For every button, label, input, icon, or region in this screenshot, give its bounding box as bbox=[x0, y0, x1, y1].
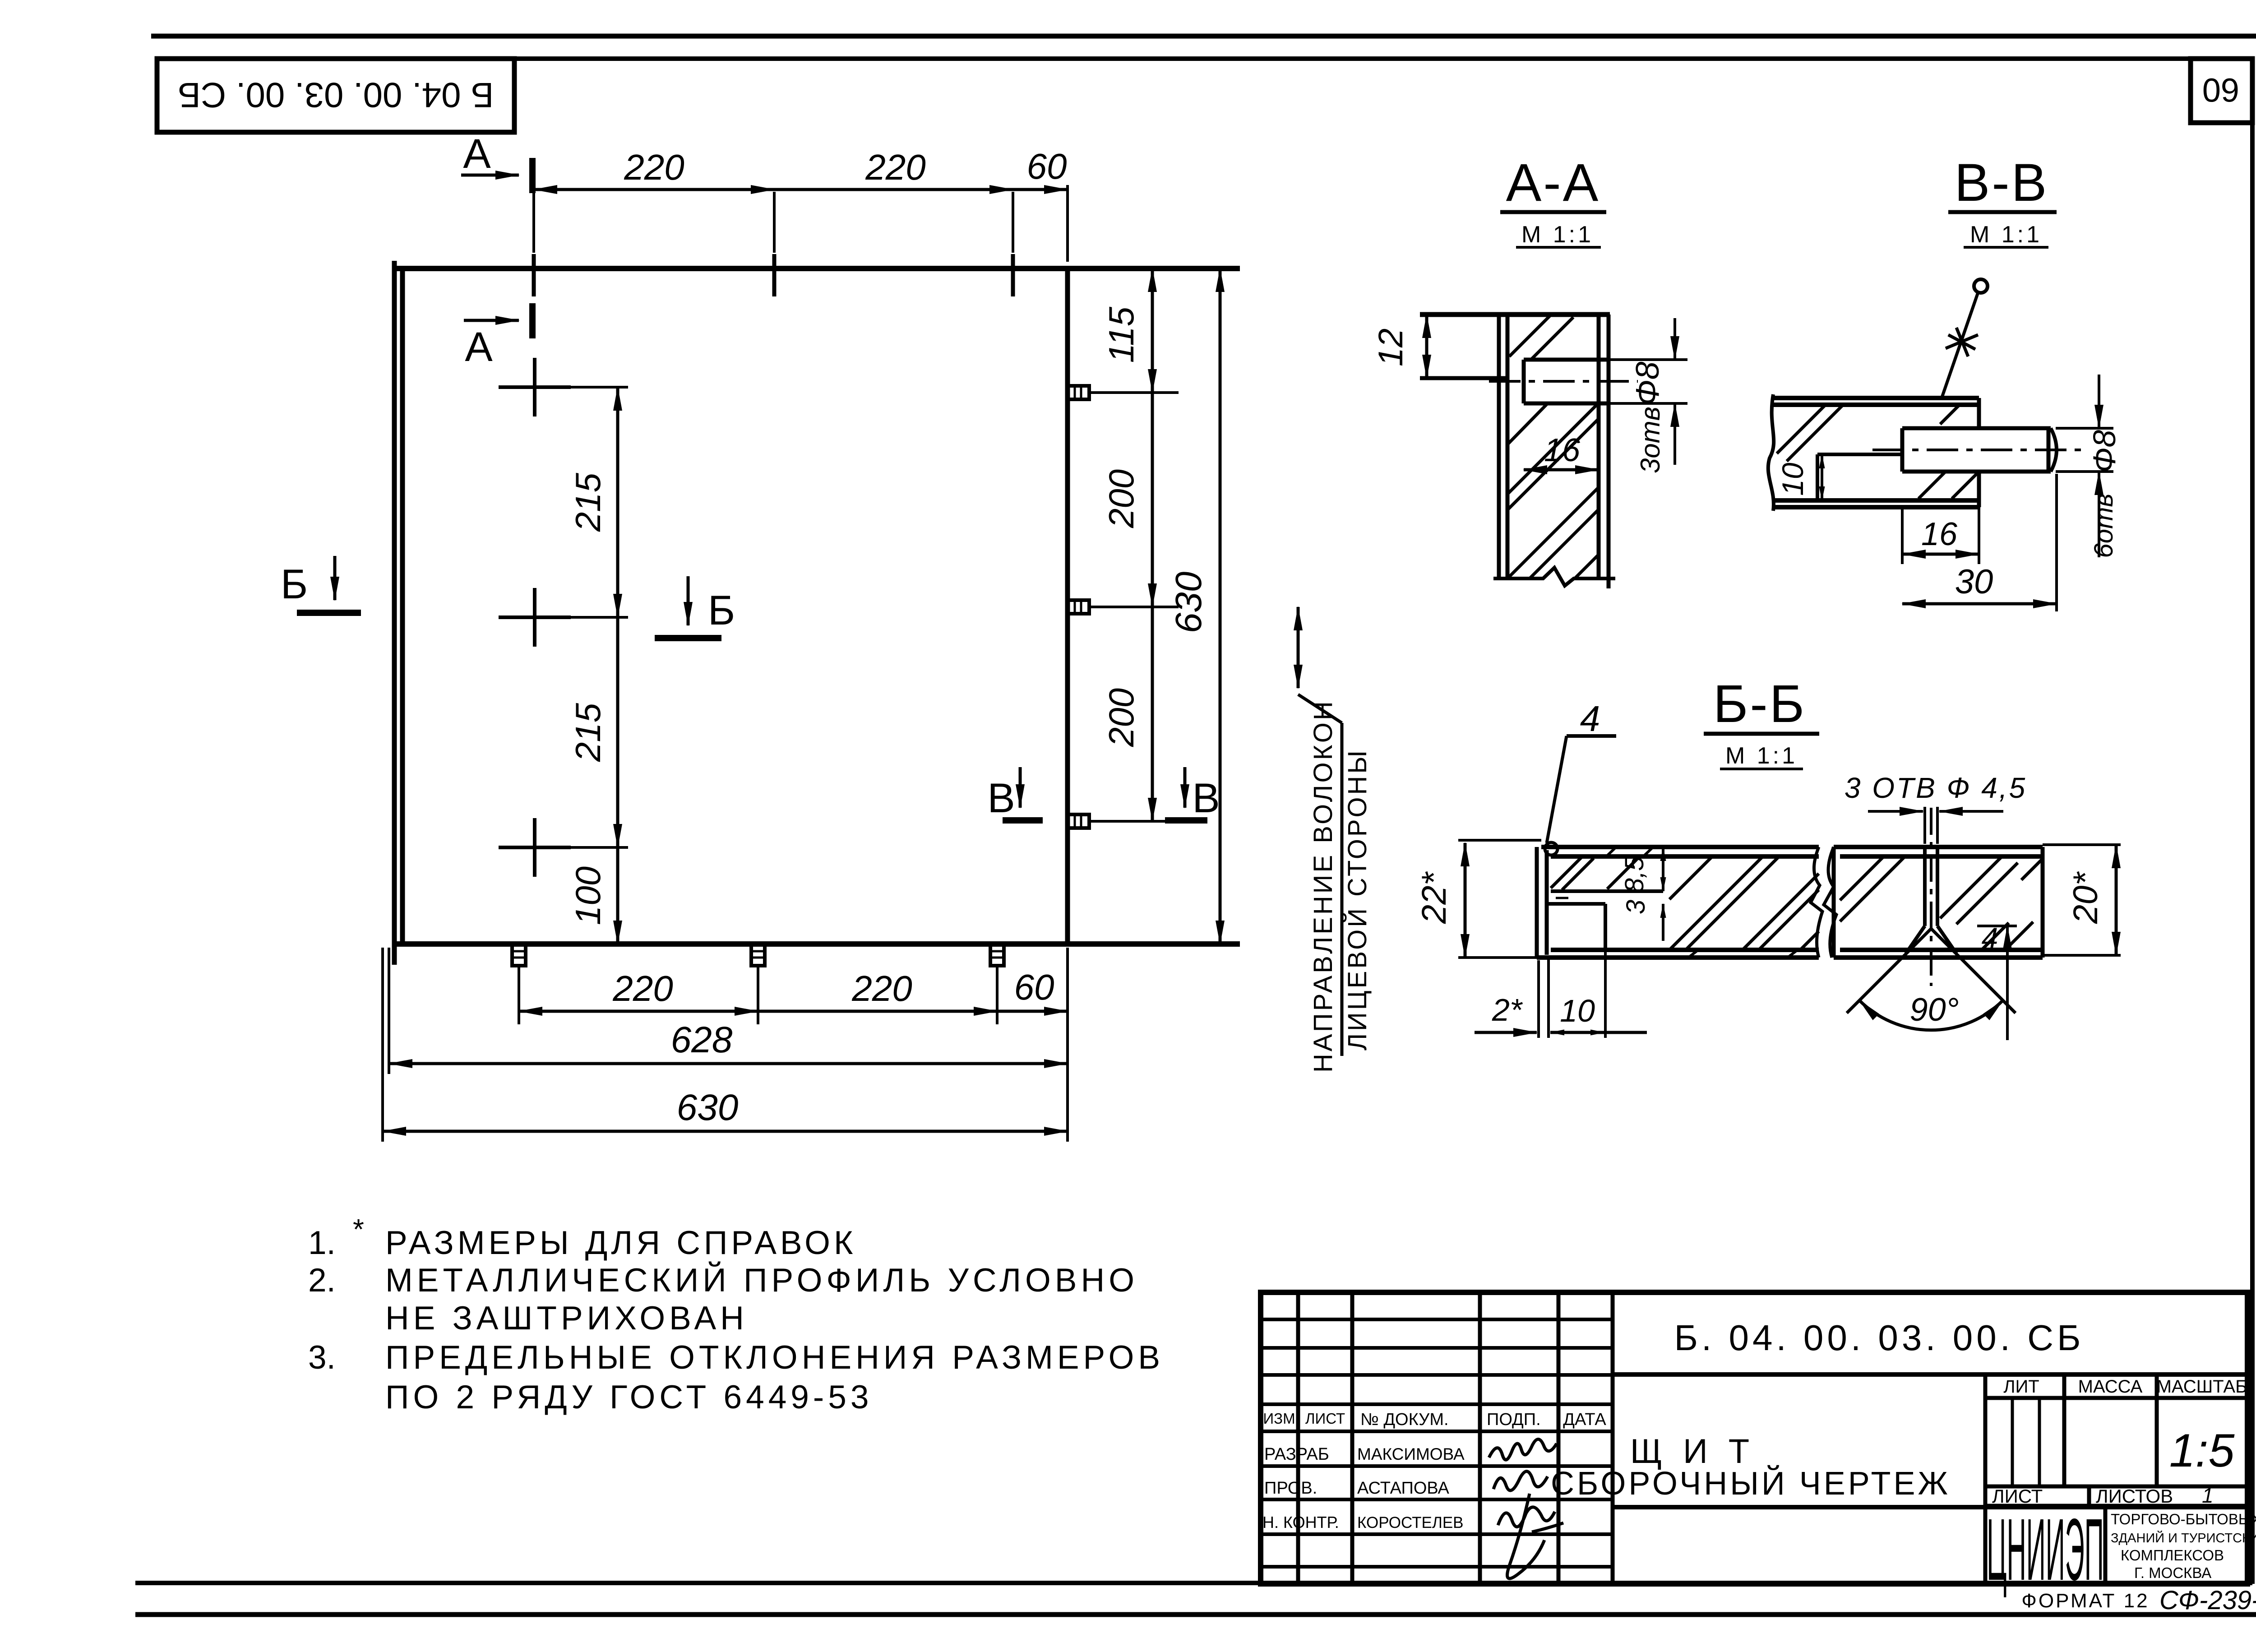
svg-text:200: 200 bbox=[1101, 469, 1141, 528]
A-A ledge line bbox=[1420, 376, 1507, 380]
dim line 630 bottom bbox=[383, 1130, 1068, 1133]
B-B dim tail line bbox=[1606, 1031, 1647, 1034]
B-B upper block hatch bbox=[1551, 857, 1637, 890]
section mark A upper arrow bbox=[461, 174, 519, 177]
dim line 628 bbox=[389, 1062, 1068, 1065]
B-B 90 deg V lines bbox=[1847, 929, 2016, 1013]
right dim line 200 bbox=[1151, 393, 1154, 607]
pin right 1 bbox=[1068, 386, 1179, 399]
svg-text:ЗДАНИЙ И ТУРИСТСКИХ: ЗДАНИЙ И ТУРИСТСКИХ bbox=[2111, 1530, 2256, 1546]
svg-text:А: А bbox=[465, 324, 493, 370]
B-B hole upper extensions bbox=[1925, 807, 1937, 844]
B-B countersink cone bbox=[1906, 926, 1956, 953]
right dim line 200b bbox=[1151, 607, 1154, 821]
V-V dowel axis bbox=[1872, 449, 2085, 451]
svg-text:Б: Б bbox=[281, 561, 308, 607]
B-B break squiggle right bbox=[1824, 847, 1836, 958]
section mark B left arrow bbox=[333, 556, 337, 600]
svg-text:КОМПЛЕКСОВ: КОМПЛЕКСОВ bbox=[2121, 1547, 2224, 1564]
bottom dim right extension bbox=[1066, 948, 1069, 1142]
B-B dims 2 and 10 extensions bbox=[1539, 952, 1605, 1038]
A-A bottom break line bbox=[1493, 568, 1615, 586]
svg-text:4: 4 bbox=[1982, 921, 1998, 955]
bottom 628 extension lines bbox=[383, 948, 389, 1142]
A-A dowel hole bbox=[1524, 360, 1609, 403]
V-V dim 30 bbox=[1902, 602, 2057, 606]
svg-text:215: 215 bbox=[568, 472, 608, 532]
pin bottom 1 bbox=[512, 944, 526, 1024]
svg-text:Ф8: Ф8 bbox=[2087, 430, 2122, 473]
B-B 3 otv dim arrows bbox=[1868, 810, 1923, 813]
svg-text:1.: 1. bbox=[308, 1225, 336, 1261]
panel left edge double line bbox=[394, 261, 402, 965]
svg-text:ТОРГОВО-БЫТОВЫХ: ТОРГОВО-БЫТОВЫХ bbox=[2111, 1511, 2256, 1527]
svg-text:Б-Б: Б-Б bbox=[1713, 674, 1806, 734]
svg-text:1:5: 1:5 bbox=[2169, 1425, 2235, 1477]
svg-text:М 1:1: М 1:1 bbox=[1725, 743, 1798, 769]
svg-text:90°: 90° bbox=[1910, 992, 1959, 1028]
svg-text:ПОДП.: ПОДП. bbox=[1487, 1410, 1541, 1429]
svg-text:3: 3 bbox=[1621, 900, 1650, 914]
svg-text:*: * bbox=[353, 1213, 364, 1245]
svg-text:ЦНИИЭП: ЦНИИЭП bbox=[1987, 1500, 2104, 1599]
svg-text:АСТАПОВА: АСТАПОВА bbox=[1357, 1479, 1450, 1498]
B-B dim 10 line bbox=[1550, 1031, 1604, 1034]
svg-text:Б. 04. 00. 03. 00. СБ: Б. 04. 00. 03. 00. СБ bbox=[1674, 1318, 2085, 1358]
svg-text:Ф8: Ф8 bbox=[1630, 361, 1666, 405]
svg-text:РАЗМЕРЫ ДЛЯ СПРАВОК: РАЗМЕРЫ ДЛЯ СПРАВОК bbox=[385, 1225, 856, 1261]
interior cross 3 bbox=[499, 818, 571, 877]
B-B screw hole bbox=[1925, 847, 1937, 926]
svg-text:100: 100 bbox=[568, 866, 608, 925]
V-V hatching bbox=[1777, 404, 1978, 499]
top dim extension lines bbox=[534, 185, 1068, 262]
svg-text:16: 16 bbox=[1544, 432, 1581, 468]
top-left stamp box bbox=[157, 59, 514, 132]
lit cell subdividers bbox=[2012, 1398, 2039, 1486]
B-B dim 20 extensions bbox=[2043, 845, 2121, 955]
svg-text:В: В bbox=[987, 775, 1015, 821]
top edge cross marks bbox=[534, 254, 1013, 296]
svg-text:МЕТАЛЛИЧЕСКИЙ ПРОФИЛЬ УСЛОВНО: МЕТАЛЛИЧЕСКИЙ ПРОФИЛЬ УСЛОВНО bbox=[385, 1262, 1138, 1299]
left dim line 215b bbox=[616, 617, 619, 847]
V-V leader star bbox=[1946, 328, 1978, 356]
svg-text:ДАТА: ДАТА bbox=[1563, 1410, 1606, 1429]
B-B left piece bottom skin bbox=[1537, 950, 1819, 958]
A-A dim 16 bbox=[1524, 468, 1599, 472]
B-B dim 8.5 arrows bbox=[1662, 847, 1664, 891]
section B-B scale underline bbox=[1720, 768, 1803, 770]
V-V dim F8 arrows bbox=[2098, 375, 2100, 428]
svg-text:В: В bbox=[1192, 775, 1220, 821]
svg-text:60: 60 bbox=[2202, 71, 2239, 109]
svg-text:ПО 2 РЯДУ ГОСТ 6449-53: ПО 2 РЯДУ ГОСТ 6449-53 bbox=[385, 1379, 873, 1416]
V-V dowel end cap bbox=[2051, 428, 2057, 472]
B-B big block hatch bbox=[1669, 856, 1819, 950]
A-A hole extension ticks bbox=[1609, 360, 1687, 403]
section mark V right bar bbox=[1165, 817, 1207, 824]
svg-text:60: 60 bbox=[1014, 967, 1054, 1007]
V-V member bottom skin bbox=[1773, 500, 1979, 507]
svg-text:А-А: А-А bbox=[1506, 153, 1600, 213]
designation cell bottom line bbox=[1613, 1372, 2247, 1377]
B-B dim 22 bbox=[1464, 843, 1467, 958]
svg-text:215: 215 bbox=[568, 703, 608, 762]
section mark V left arrow bbox=[1019, 767, 1022, 808]
V-V member right end edges bbox=[1977, 398, 1981, 507]
V-V member top skin bbox=[1773, 398, 1979, 405]
left dim extension lines bbox=[571, 387, 628, 847]
svg-text:СФ-239-05: СФ-239-05 bbox=[2159, 1586, 2256, 1615]
A-A member edges bbox=[1499, 315, 1609, 588]
logo cell divider bbox=[2103, 1506, 2108, 1584]
svg-text:16: 16 bbox=[1921, 516, 1958, 552]
svg-text:630: 630 bbox=[677, 1087, 739, 1128]
fiber note connector bbox=[1298, 694, 1342, 723]
svg-text:4: 4 bbox=[1580, 699, 1600, 739]
right dim line 115 bbox=[1151, 268, 1154, 393]
section mark V right arrow bbox=[1183, 767, 1187, 808]
right dim line 630 bbox=[1219, 268, 1222, 944]
pin bottom 3 bbox=[990, 944, 1004, 1024]
svg-text:30: 30 bbox=[1955, 563, 1993, 601]
svg-text:В-В: В-В bbox=[1955, 153, 2049, 213]
svg-text:ЛИСТ: ЛИСТ bbox=[1305, 1410, 1345, 1427]
svg-text:3.: 3. bbox=[308, 1339, 336, 1376]
section A-A title underline bbox=[1500, 210, 1606, 214]
interior cross 1 bbox=[499, 358, 571, 416]
svg-text:М 1:1: М 1:1 bbox=[1970, 222, 2042, 248]
left dim line 215 bbox=[616, 387, 619, 617]
V-V dim F8 ticks bbox=[2056, 428, 2113, 472]
B-B right piece bottom skin bbox=[1834, 950, 2043, 958]
panel bottom edge bbox=[394, 941, 1240, 947]
svg-text:1: 1 bbox=[2202, 1484, 2214, 1507]
svg-text:Б: Б bbox=[708, 588, 735, 634]
top dim line 60 bbox=[1013, 188, 1068, 191]
svg-text:ПРЕДЕЛЬНЫЕ ОТКЛОНЕНИЯ РАЗМЕРОВ: ПРЕДЕЛЬНЫЕ ОТКЛОНЕНИЯ РАЗМЕРОВ bbox=[385, 1339, 1164, 1376]
svg-text:3отв: 3отв bbox=[1635, 407, 1665, 473]
sheet inner border bottom bbox=[135, 1581, 2252, 1585]
B-B dim 4 tick bbox=[1977, 925, 2017, 927]
svg-text:М 1:1: М 1:1 bbox=[1521, 222, 1594, 248]
svg-text:3 ОТВ Ф 4,5: 3 ОТВ Ф 4,5 bbox=[1845, 772, 2027, 804]
A-A hatching bbox=[1507, 315, 1599, 578]
svg-text:12: 12 bbox=[1372, 329, 1410, 367]
B-B metal profile 4 bbox=[1537, 847, 1547, 958]
title block left grid rows bbox=[1261, 1319, 1613, 1567]
V-V dim 16 extensions bbox=[1902, 507, 1979, 564]
V-V dim 10 bbox=[1821, 454, 1823, 500]
pin right 2 bbox=[1068, 600, 1179, 614]
left dim line 100 bbox=[616, 847, 619, 944]
B-B right piece top skin bbox=[1834, 847, 2043, 856]
svg-text:ИЗМ: ИЗМ bbox=[1263, 1410, 1295, 1427]
title block left grid verticals bbox=[1298, 1292, 1613, 1584]
svg-text:ЛИЦЕВОЙ СТОРОНЫ: ЛИЦЕВОЙ СТОРОНЫ bbox=[1343, 748, 1372, 1050]
A-A dim 12 bbox=[1425, 315, 1428, 378]
sheet inner border top bbox=[157, 56, 2252, 61]
svg-text:ЛИТ: ЛИТ bbox=[2003, 1377, 2039, 1397]
svg-text:МАСШТАБ: МАСШТАБ bbox=[2157, 1377, 2247, 1397]
top dim line 220b bbox=[774, 188, 1013, 191]
signature korostelev bbox=[1498, 1494, 1563, 1578]
B-B dim 2 line bbox=[1475, 1031, 1537, 1034]
svg-text:ФОРМАТ 12: ФОРМАТ 12 bbox=[2021, 1590, 2149, 1612]
V-V member left break edge bbox=[1768, 394, 1774, 511]
svg-text:РАЗРАБ: РАЗРАБ bbox=[1264, 1445, 1329, 1464]
B-B hardboard edge dash bbox=[1556, 897, 1568, 899]
svg-text:22*: 22* bbox=[1415, 871, 1453, 925]
svg-text:6отв: 6отв bbox=[2089, 493, 2118, 558]
svg-text:НЕ ЗАШТРИХОВАН: НЕ ЗАШТРИХОВАН bbox=[385, 1300, 748, 1337]
B-B dim 20 bbox=[2115, 845, 2118, 955]
interior cross 2 bbox=[499, 588, 571, 647]
svg-text:115: 115 bbox=[1101, 306, 1141, 363]
svg-text:10: 10 bbox=[1560, 993, 1595, 1028]
bottom dim line 220 bbox=[519, 1010, 758, 1013]
name cell bottom line bbox=[1613, 1505, 2247, 1509]
svg-text:220: 220 bbox=[851, 968, 912, 1009]
panel top edge bbox=[394, 266, 1240, 271]
B-B dim 22 extension bbox=[1458, 840, 1541, 958]
sheet inner border right bbox=[2250, 59, 2255, 1584]
svg-text:220: 220 bbox=[612, 968, 673, 1009]
section mark A upper bar bbox=[529, 158, 536, 193]
B-B dim 3 arrow bbox=[1662, 904, 1664, 941]
A-A dim F8 arrows bbox=[1674, 318, 1676, 360]
svg-text:КОРОСТЕЛЕВ: КОРОСТЕЛЕВ bbox=[1357, 1514, 1464, 1532]
svg-text:НАПРАВЛЕНИЕ ВОЛОКОН: НАПРАВЛЕНИЕ ВОЛОКОН bbox=[1308, 699, 1338, 1073]
top dim line 220 bbox=[534, 188, 774, 191]
B-B skin hatch dashes bbox=[1606, 847, 1798, 958]
svg-text:№ ДОКУМ.: № ДОКУМ. bbox=[1360, 1410, 1449, 1429]
fiber direction double arrow bbox=[1297, 607, 1300, 688]
svg-text:200: 200 bbox=[1101, 688, 1141, 747]
fiber note underline bbox=[1341, 723, 1344, 1056]
top-left stamp text (upside down) bbox=[178, 75, 494, 115]
svg-text:2*: 2* bbox=[1492, 992, 1523, 1027]
B-B metal profile corner circle bbox=[1545, 842, 1558, 855]
pin right 3 bbox=[1068, 814, 1179, 828]
A-A hole axis line bbox=[1489, 380, 1638, 383]
svg-text:220: 220 bbox=[624, 147, 684, 187]
svg-text:МАССА: МАССА bbox=[2078, 1377, 2143, 1397]
section V-V title underline bbox=[1948, 210, 2057, 214]
svg-text:ПРОВ.: ПРОВ. bbox=[1264, 1479, 1317, 1498]
V-V leader circle bbox=[1974, 279, 1988, 293]
section mark A lower bar bbox=[529, 303, 536, 338]
B-B position 4 leader line bbox=[1547, 736, 1567, 843]
svg-text:Г. МОСКВА: Г. МОСКВА bbox=[2134, 1564, 2211, 1581]
section mark B mid arrow bbox=[687, 576, 690, 625]
signature maksimova bbox=[1489, 1439, 1563, 1578]
bottom dim line 60 bbox=[997, 1010, 1068, 1013]
A-A top shoulder line bbox=[1420, 312, 1610, 317]
sheet number box 60 bbox=[2191, 59, 2252, 123]
svg-text:МАКСИМОВА: МАКСИМОВА bbox=[1357, 1445, 1465, 1463]
section mark V left bar bbox=[1003, 817, 1043, 824]
section B-B title underline bbox=[1704, 732, 1819, 736]
svg-text:2.: 2. bbox=[308, 1262, 336, 1299]
V-V dim 16 bbox=[1902, 553, 1979, 556]
svg-text:20*: 20* bbox=[2066, 871, 2105, 925]
sheet number text 60 (upside down) bbox=[2202, 71, 2239, 109]
lit massa masshtab box bbox=[1985, 1374, 2247, 1584]
section A-A scale underline bbox=[1516, 246, 1601, 249]
B-B position 4 leader underline bbox=[1567, 734, 1616, 738]
svg-text:60: 60 bbox=[1027, 146, 1067, 186]
B-B right piece hatch bbox=[1840, 856, 2043, 950]
B-B 90 deg arc bbox=[1859, 1000, 2003, 1030]
V-V dowel bbox=[1902, 428, 2051, 472]
svg-text:ЛИСТОВ: ЛИСТОВ bbox=[2096, 1485, 2173, 1507]
list/listov divider bbox=[1985, 1486, 2247, 1506]
V-V notch lines bbox=[1817, 454, 1902, 500]
section mark B mid bar bbox=[655, 635, 721, 641]
pin bottom 2 bbox=[751, 944, 765, 1024]
section mark B left bar bbox=[297, 610, 361, 616]
V-V leader line bbox=[1941, 292, 1978, 400]
svg-text:А: А bbox=[463, 131, 491, 177]
B-B hole axis bbox=[1930, 808, 1932, 986]
svg-text:СБОРОЧНЫЙ ЧЕРТЕЖ: СБОРОЧНЫЙ ЧЕРТЕЖ bbox=[1551, 1465, 1951, 1502]
title block outline bbox=[1261, 1292, 2247, 1584]
svg-text:Н. КОНТР.: Н. КОНТР. bbox=[1262, 1513, 1339, 1532]
signature astapova bbox=[1493, 1472, 1548, 1490]
svg-text:630: 630 bbox=[1168, 572, 1209, 634]
svg-text:8,5: 8,5 bbox=[1620, 856, 1649, 893]
svg-text:220: 220 bbox=[865, 147, 925, 187]
svg-text:ЩИТ: ЩИТ bbox=[1630, 1432, 1770, 1471]
panel right edge bbox=[1065, 268, 1070, 944]
section V-V scale underline bbox=[1964, 246, 2048, 249]
B-B left piece top skin bbox=[1541, 847, 1819, 856]
svg-text:Б 04. 00. 03. 00. СБ: Б 04. 00. 03. 00. СБ bbox=[178, 75, 494, 115]
section mark A lower arrow bbox=[464, 319, 519, 322]
B-B profile slot lines bbox=[1547, 891, 1663, 950]
svg-text:628: 628 bbox=[671, 1019, 733, 1060]
B-B dim 4 arrow bbox=[2006, 926, 2009, 1040]
V-V dim 30 extension bbox=[2055, 474, 2058, 611]
TITLE BLOCK bbox=[1261, 1292, 2247, 1584]
svg-text:10: 10 bbox=[1776, 463, 1809, 496]
bottom dim line 220b bbox=[758, 1010, 997, 1013]
B-B right piece ends bbox=[1834, 847, 2043, 958]
B-B break squiggle left bbox=[1811, 847, 1822, 958]
